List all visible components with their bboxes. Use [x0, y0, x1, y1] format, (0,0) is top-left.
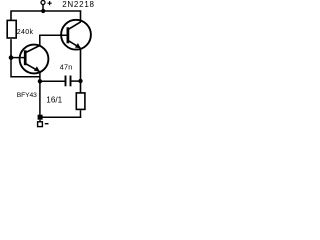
capacitor C1 [65, 76, 67, 87]
wire terminal lead [42, 5, 44, 12]
plus sign [48, 1, 52, 5]
resistor R1 [7, 20, 16, 38]
node battery junction [38, 115, 43, 120]
wire left rail upper [10, 11, 12, 22]
wire battery lead [39, 120, 41, 122]
wire R2 bottom lead [80, 110, 82, 118]
svg-text:BFY43: BFY43 [17, 92, 37, 99]
wire Q2 collector up [80, 11, 82, 23]
resistor R2 [76, 93, 85, 110]
battery positive terminal [41, 1, 45, 5]
transistor Q1 [20, 45, 49, 74]
wire emitter Q1 down [39, 72, 41, 118]
wire bottom rail [40, 116, 81, 118]
node cap right [78, 79, 82, 83]
node cap left [38, 79, 42, 83]
battery negative terminal [38, 122, 43, 127]
wire base lead Q1 [11, 57, 25, 59]
wire cap right lead [71, 80, 80, 82]
wire Q1 collector to Q2 base [40, 35, 68, 45]
wire cap left lead [40, 80, 65, 82]
wire top rail [11, 10, 82, 12]
wire left rail lower [11, 58, 41, 77]
wire left rail middle [10, 39, 12, 58]
transistor Q2 [61, 20, 91, 50]
wire Q2 emitter down [80, 48, 82, 93]
svg-text:47n: 47n [60, 63, 73, 72]
minus sign [45, 123, 49, 125]
svg-text:240k: 240k [17, 29, 34, 36]
svg-text:2N2218: 2N2218 [62, 0, 95, 9]
node base junction [9, 55, 14, 60]
node junction top [41, 9, 45, 13]
svg-text:16/1: 16/1 [46, 96, 62, 105]
